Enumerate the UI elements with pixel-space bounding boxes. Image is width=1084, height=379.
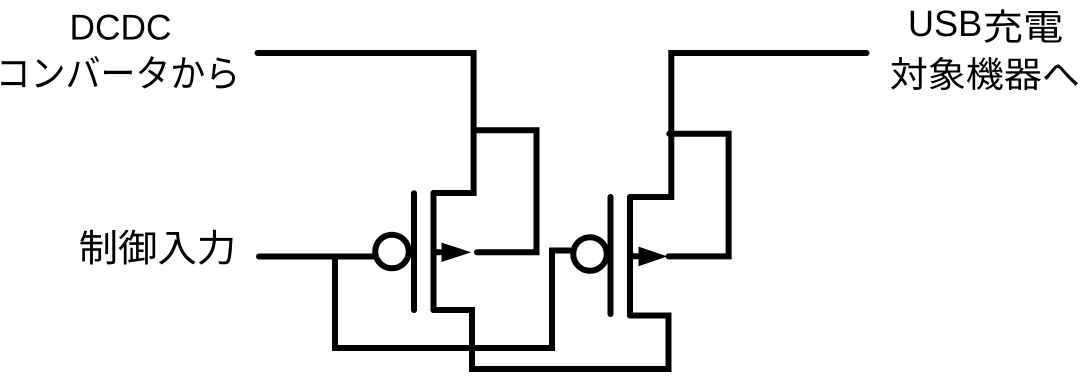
transistor Q1 gate inversion bubble [375,235,409,269]
node label: DCDC (from DC-DC converter), line 1 [72,15,170,40]
node label: コンバータから (from converter), line 2 [1,56,235,88]
wire: control branch down and across to Q2 gate bubble [335,251,571,349]
node label: 制御入力 (control input) [80,230,232,265]
transistor Q2 gate inversion bubble [573,237,607,271]
wire: Q2 drain lead up to USB output net [630,53,867,197]
node label: 充電 (charging), line 1 kanji part [984,9,1062,42]
wire: Q1 source to Q2 source bottom dip connection [434,310,669,369]
wire: control input to Q1 gate bubble [259,254,373,260]
transistor Q2 channel bar [627,197,633,316]
node label: 対象機器へ (to target device), line 2 [891,57,1078,90]
wire: branch from USB net to Q2 source/body lead [669,134,729,257]
transistor Q2 body arrow (PMOS) [639,247,668,267]
transistor Q1 body-arrow stub [434,249,441,255]
wire: branch from DCDC net to Q1 source/body lead [474,130,537,252]
transistor Q1 body arrow (PMOS) [442,243,472,262]
transistor Q1 channel bar [431,193,437,310]
node label: USB (USB charging), line 1 latin part [911,10,981,36]
transistor Q1 gate bar [411,193,417,310]
transistor Q2 gate bar [608,197,614,314]
transistor Q2 body-arrow stub [630,253,637,259]
wire: DCDC input net down to Q1 drain lead [258,53,474,193]
